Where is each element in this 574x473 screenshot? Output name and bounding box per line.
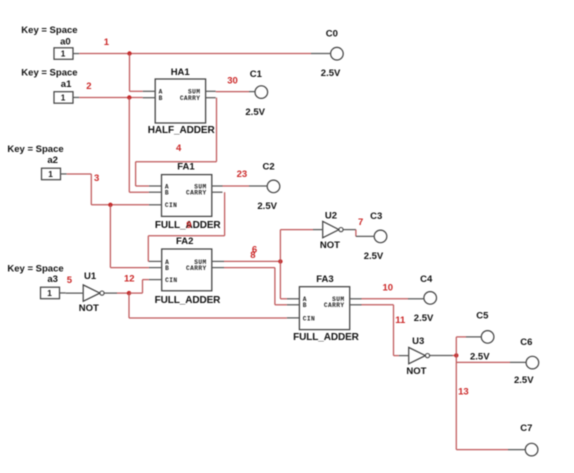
svg-text:1: 1: [104, 37, 110, 48]
wire net6 FA2.SUM: [224, 260, 280, 262]
svg-text:B: B: [159, 95, 163, 102]
svg-text:23: 23: [237, 169, 248, 180]
svg-text:1: 1: [61, 49, 66, 58]
svg-text:5: 5: [67, 275, 73, 286]
svg-text:NOT: NOT: [406, 366, 426, 377]
svg-text:2.5V: 2.5V: [245, 107, 265, 118]
wire net6 up to U2: [279, 230, 281, 262]
svg-text:CIN: CIN: [165, 202, 177, 209]
wire net30 HA1.SUM to C1: [216, 91, 249, 93]
svg-text:9: 9: [186, 220, 191, 231]
svg-text:a0: a0: [60, 37, 71, 48]
wire net3 drop to FA2.B: [109, 205, 111, 268]
svg-text:C1: C1: [250, 69, 263, 80]
inverter U1: [83, 285, 100, 301]
junction net2: [127, 95, 131, 99]
svg-text:Key = Space: Key = Space: [21, 25, 77, 36]
svg-text:1: 1: [47, 289, 52, 298]
svg-text:3: 3: [94, 173, 99, 184]
wire net3 a2 to FA1.CIN: [67, 173, 92, 175]
wire net7 U2 out to C3: [343, 229, 356, 231]
svg-text:CIN: CIN: [303, 315, 315, 322]
wire net11 FA3.CARRY to U3: [362, 304, 394, 306]
svg-text:FA2: FA2: [176, 236, 193, 247]
inverter U2: [323, 221, 339, 237]
half-adder HA1: [155, 79, 205, 123]
junction net13: [454, 353, 458, 357]
wire net4 HA1.CARRY to FA1.A: [216, 98, 218, 162]
junction net3: [108, 203, 112, 207]
wire net13 tee to C6: [455, 355, 457, 362]
full-adder FA1: [162, 175, 212, 217]
svg-text:CARRY: CARRY: [186, 265, 207, 272]
svg-text:B: B: [303, 302, 307, 309]
svg-text:C0: C0: [326, 28, 338, 39]
wire net1 a0 horizontal to C0: [79, 53, 311, 55]
svg-text:7: 7: [358, 217, 363, 228]
wire net13 down to C7: [455, 362, 457, 449]
svg-text:HALF_ADDER: HALF_ADDER: [148, 125, 216, 136]
svg-text:CARRY: CARRY: [180, 95, 201, 102]
svg-text:U2: U2: [325, 210, 337, 221]
svg-text:C4: C4: [420, 274, 433, 285]
svg-text:CARRY: CARRY: [324, 302, 345, 309]
junction net1: [127, 51, 131, 55]
junction net12: [127, 291, 131, 295]
junction net6: [278, 259, 282, 263]
svg-text:FA3: FA3: [316, 274, 333, 285]
wire net12 U1 out: [104, 292, 117, 294]
svg-text:a1: a1: [61, 79, 72, 90]
svg-text:Key = Space: Key = Space: [7, 263, 63, 274]
svg-text:CARRY: CARRY: [186, 190, 207, 197]
wire net12 to FA3.CIN: [128, 293, 130, 318]
svg-text:U3: U3: [412, 336, 424, 347]
svg-text:C5: C5: [476, 311, 489, 322]
inverter U3: [409, 347, 426, 363]
svg-text:C6: C6: [520, 337, 532, 348]
wire net23 FA1.SUM to C2: [223, 185, 250, 187]
svg-text:12: 12: [124, 273, 135, 284]
wire net2 a1 horizontal: [79, 97, 143, 99]
svg-text:C2: C2: [263, 161, 275, 172]
svg-text:11: 11: [395, 315, 406, 326]
svg-text:FA1: FA1: [177, 161, 195, 172]
wire net8 FA2.CARRY to FA3.B: [224, 267, 275, 269]
svg-text:10: 10: [383, 283, 394, 294]
svg-text:30: 30: [227, 76, 238, 87]
svg-text:13: 13: [458, 387, 469, 398]
svg-text:B: B: [165, 190, 169, 197]
svg-text:U1: U1: [84, 271, 97, 282]
wire net5 a3 to U1: [66, 292, 84, 294]
wire net9 FA1.CARRY to FA2.A: [224, 192, 226, 236]
svg-text:C7: C7: [520, 423, 532, 434]
svg-text:a3: a3: [47, 274, 58, 285]
wire net13 up to C5: [455, 337, 457, 356]
svg-text:FULL_ADDER: FULL_ADDER: [293, 332, 360, 343]
svg-text:B: B: [165, 265, 169, 272]
svg-text:Key = Space: Key = Space: [7, 144, 63, 155]
svg-text:2.5V: 2.5V: [514, 375, 534, 386]
svg-text:2.5V: 2.5V: [364, 251, 384, 262]
wire net6 down to FA3.A: [279, 261, 281, 298]
svg-text:CIN: CIN: [165, 277, 177, 284]
svg-text:8: 8: [250, 250, 255, 261]
svg-text:2.5V: 2.5V: [414, 313, 434, 324]
wire net10 FA3.SUM to C4: [362, 298, 409, 300]
svg-text:1: 1: [61, 93, 66, 102]
svg-text:FULL_ADDER: FULL_ADDER: [155, 295, 222, 306]
svg-text:2: 2: [86, 81, 91, 92]
svg-text:1: 1: [48, 170, 53, 179]
wire net1 drop to HA1.A: [129, 54, 131, 92]
wire net13 U3 out: [430, 355, 453, 357]
svg-text:C3: C3: [370, 211, 382, 222]
svg-text:4: 4: [176, 143, 182, 154]
wire net12 to FA2.CIN: [129, 292, 143, 294]
svg-text:a2: a2: [47, 155, 58, 166]
svg-text:NOT: NOT: [320, 240, 340, 251]
svg-text:2.5V: 2.5V: [470, 352, 490, 363]
svg-text:Key = Space: Key = Space: [21, 68, 77, 79]
wire net2 drop to FA1.B: [128, 98, 130, 193]
svg-text:2.5V: 2.5V: [257, 201, 277, 212]
full-adder FA2: [162, 249, 212, 291]
full-adder FA3: [299, 287, 349, 330]
svg-text:2.5V: 2.5V: [321, 68, 341, 79]
svg-text:HA1: HA1: [171, 67, 191, 78]
svg-text:NOT: NOT: [79, 303, 99, 314]
